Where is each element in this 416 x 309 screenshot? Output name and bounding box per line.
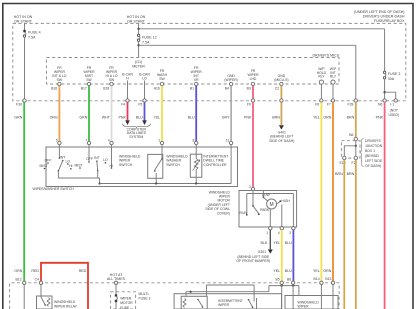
svg-text:PNK: PNK — [119, 116, 127, 120]
svg-text:SW: SW — [159, 77, 165, 81]
wire fuse 4 to pin F30 — [24, 37, 26, 99]
wire ORN F7 to pin B13 — [323, 102, 333, 281]
wire YEL F6 to pin B14 — [313, 102, 321, 281]
svg-text:C4: C4 — [35, 277, 39, 281]
svg-text:YEL: YEL — [273, 241, 280, 245]
arrow B-CAN LO to data lines — [142, 120, 147, 125]
svg-text:YEL: YEL — [313, 269, 320, 273]
node COMPUTER DATA LINES SYSTEM — [123, 124, 151, 140]
svg-text:RLY: RLY — [318, 75, 325, 79]
wire YEL A16 to washer switch — [154, 86, 162, 141]
wire RED C4 loop to bottom — [31, 263, 88, 309]
label INTERMITTENT WIPER RELAY — [218, 299, 243, 307]
wire PNK B3 to pin F9 — [252, 86, 254, 99]
pin B3 — [247, 82, 255, 90]
pin I-1 (NOT USED) — [389, 99, 400, 117]
wire gray W/P INT RLY to pin F7 — [332, 84, 334, 99]
svg-text:BLU: BLU — [188, 116, 195, 120]
svg-text:OR START: OR START — [14, 19, 33, 23]
pin B16 — [51, 82, 61, 90]
windshield wiper relay — [37, 296, 78, 309]
svg-text:BRN: BRN — [335, 172, 343, 176]
wire PNK from N6 to bottom — [376, 102, 385, 309]
pin 1 (motor BLK) — [266, 227, 272, 235]
svg-text:OR START: OR START — [127, 19, 146, 23]
node HOT IN ON OR START (middle) — [127, 15, 146, 23]
wire BRN from F28 to junction box B6 — [347, 102, 356, 137]
intermittent wiper relay coil box — [181, 296, 207, 309]
svg-text:FUSE 3: FUSE 3 — [139, 296, 151, 300]
svg-text:BLU: BLU — [285, 241, 292, 245]
svg-text:JUNCTION: JUNCTION — [365, 144, 383, 148]
windshield wiper box (bottom right) — [285, 296, 338, 309]
svg-text:G301: G301 — [258, 250, 266, 254]
wire WHT B18 to wiper switch — [102, 86, 112, 141]
pin F7 — [327, 99, 335, 107]
svg-text:FUSE 12: FUSE 12 — [142, 35, 157, 39]
svg-text:SWITCH: SWITCH — [166, 163, 180, 167]
wire intermittent relay coil link — [186, 291, 269, 297]
wire from branch to pin F28 — [355, 45, 357, 99]
svg-text:7: 7 — [85, 138, 87, 142]
pin 8 (dwell controller) — [193, 138, 198, 147]
svg-text:SYSTEM: SYSTEM — [129, 135, 143, 139]
svg-text:B16: B16 — [51, 86, 57, 90]
svg-text:B3: B3 — [247, 86, 251, 90]
pin B14 — [314, 277, 324, 309]
svg-text:BOX 1: BOX 1 — [365, 149, 375, 153]
label WINDSHIELD WIPER MOTOR — [205, 190, 230, 215]
node HOT IN ON OR START (left) — [14, 15, 33, 23]
svg-text:SW: SW — [86, 78, 92, 82]
svg-text:FUSE 4: FUSE 4 — [28, 31, 41, 35]
node GND (MICU-S) — [274, 74, 288, 82]
junction above fuse 12 — [137, 28, 139, 30]
svg-text:DRIVER'S MICU: DRIVER'S MICU — [312, 53, 339, 57]
label WINDSHIELD WASHER SWITCH — [166, 154, 188, 167]
svg-text:11: 11 — [226, 138, 230, 142]
svg-text:BRN: BRN — [272, 116, 280, 120]
svg-text:HOT AT: HOT AT — [110, 273, 123, 277]
svg-text:(BEHIND: (BEHIND — [365, 154, 379, 158]
svg-text:LEFT SIDE: LEFT SIDE — [365, 159, 383, 163]
DRIVER'S MICU box (dashed) — [47, 53, 340, 84]
wiper motor M — [262, 191, 293, 228]
pin F10 — [280, 99, 283, 102]
wire fuse 3 to pin N6 — [384, 79, 386, 99]
svg-text:WIPER/WASHER SWITCH: WIPER/WASHER SWITCH — [33, 187, 75, 191]
svg-text:FUSE 3: FUSE 3 — [388, 72, 401, 76]
svg-text:DRIVER'S: DRIVER'S — [365, 139, 381, 143]
pin 4 (wiper switch) — [108, 138, 113, 147]
svg-text:ORN: ORN — [323, 269, 331, 273]
pin B13 — [325, 277, 334, 309]
svg-text:ORG: ORG — [50, 116, 58, 120]
pin 7 (wiper switch) — [85, 138, 90, 147]
svg-text:YEL: YEL — [154, 116, 161, 120]
svg-text:30A: 30A — [388, 77, 395, 81]
svg-text:B13: B13 — [325, 277, 331, 281]
pin 1 (washer switch) — [158, 138, 163, 147]
svg-text:INT: INT — [94, 156, 99, 160]
svg-text:ALL TIMES: ALL TIMES — [107, 277, 126, 281]
intermittent relay contact — [248, 298, 257, 309]
svg-text:BLK: BLK — [261, 241, 268, 245]
svg-text:8: 8 — [193, 138, 195, 142]
windshield wiper motor box — [239, 191, 297, 228]
pin A16 — [154, 82, 164, 90]
svg-text:(WIPER): (WIPER) — [224, 78, 237, 82]
svg-text:PNK: PNK — [376, 116, 384, 120]
wire GRN from F30 to B12 — [14, 102, 24, 281]
svg-text:BLU: BLU — [136, 116, 143, 120]
svg-text:WIPER: WIPER — [218, 303, 230, 307]
ground bus wire — [100, 183, 232, 185]
pin E10 — [339, 156, 346, 165]
svg-text:(MICU-S): (MICU-S) — [274, 78, 288, 82]
windshield washer switch box — [148, 147, 163, 185]
svg-text:INT: INT — [60, 156, 65, 160]
pin F28 — [348, 99, 358, 107]
pin C2 — [275, 82, 283, 90]
wire GRN B17 to wiper switch — [79, 86, 89, 141]
wire BRN E10 to bottom — [335, 160, 344, 309]
svg-text:BRN: BRN — [347, 172, 355, 176]
svg-text:SW: SW — [109, 78, 115, 82]
svg-text:ORN: ORN — [323, 116, 331, 120]
svg-text:PARK: PARK — [260, 208, 270, 212]
label DRIVER'S JUNCTION BOX 1 — [360, 139, 383, 168]
wire to fuse 3 (vertical) — [384, 29, 386, 72]
svg-text:LO: LO — [66, 159, 71, 163]
svg-text:GRN: GRN — [14, 269, 22, 273]
wire BLU B-CAN LO — [136, 81, 145, 121]
wire GRY B4 to switch assembly — [222, 86, 231, 141]
node FR WIPER INT &amp; LO SW — [52, 66, 66, 82]
svg-text:B6: B6 — [287, 277, 291, 281]
svg-text:METER: METER — [132, 64, 145, 68]
wire C4 to wiper relay — [40, 285, 42, 298]
svg-text:5: 5 — [56, 138, 58, 142]
wire branch to F28 (horizontal) — [139, 44, 356, 46]
svg-text:F5: F5 — [138, 103, 142, 107]
wire from HOT IN ON to fuse 12 — [138, 23, 140, 34]
svg-text:4: 4 — [278, 231, 280, 235]
svg-text:F9: F9 — [247, 103, 251, 107]
wiper switch pole 1 — [39, 147, 72, 178]
svg-text:BRN: BRN — [347, 116, 355, 120]
junction below fuse 12 — [137, 44, 139, 46]
wire fuse 12 to METER input — [138, 41, 140, 57]
svg-text:1: 1 — [158, 138, 160, 142]
under-hood fuse/relay box (dashed, bottom) — [10, 283, 340, 309]
svg-text:B14: B14 — [314, 277, 320, 281]
pin C4 — [35, 277, 43, 284]
pin B6 (junction box) — [349, 133, 357, 141]
node FR WIPER LHD — [247, 69, 259, 81]
wire RED B-CAN H — [119, 81, 128, 121]
svg-text:F28: F28 — [348, 103, 354, 107]
node (G1) METER — [132, 60, 145, 68]
svg-text:B12: B12 — [16, 277, 22, 281]
wire BLU B1 to dwell controller — [188, 86, 197, 141]
pin B12 — [16, 277, 26, 284]
wire inside junction box — [344, 141, 357, 157]
svg-text:BLU: BLU — [285, 269, 292, 273]
svg-text:LO: LO — [103, 158, 108, 162]
wire YEL motor to pin B5 — [273, 230, 281, 281]
wire from HOT IN ON to fuse 4 — [24, 23, 26, 30]
svg-text:VR: VR — [194, 78, 199, 82]
svg-text:F4: F4 — [121, 103, 125, 107]
svg-text:B4: B4 — [225, 86, 229, 90]
svg-text:LHD: LHD — [250, 77, 257, 81]
svg-text:B5: B5 — [276, 277, 280, 281]
pin 4 (motor YEL) — [278, 227, 284, 235]
pin 2 (motor BLU) — [289, 227, 295, 235]
wiper motor fuse box (dashed) — [111, 292, 136, 309]
svg-text:OF FRONT BUMPER): OF FRONT BUMPER) — [236, 259, 270, 263]
svg-text:M: M — [270, 202, 274, 208]
pin B1 — [190, 82, 198, 90]
svg-text:OF DASH): OF DASH) — [365, 164, 381, 168]
svg-text:WIPER: WIPER — [120, 296, 132, 300]
relay W/P INT RLY — [330, 67, 337, 84]
wire intermittent relay contact link — [207, 285, 255, 302]
svg-text:USED): USED) — [389, 113, 400, 117]
wire GRY inside switch assembly — [230, 147, 232, 184]
pin 11 (switch ground) — [226, 138, 233, 147]
svg-text:RED: RED — [31, 269, 39, 273]
pin F5 (B-CAN LO) — [138, 99, 146, 107]
svg-text:WIPER: WIPER — [298, 305, 310, 309]
pin hot feed — [114, 281, 117, 294]
svg-text:2: 2 — [289, 231, 291, 235]
svg-text:F30: F30 — [16, 103, 22, 107]
svg-text:GRY: GRY — [222, 116, 230, 120]
wire B12 into box — [23, 285, 25, 309]
intermittent dwell time controller box — [190, 147, 202, 185]
wire BRN C2 to ground G401 — [272, 86, 281, 125]
under-dash fuse/relay box (dashed outline) — [13, 23, 406, 100]
wire branch to I-1 — [385, 92, 396, 99]
fuse 3 (30A) — [383, 71, 400, 81]
pin N6 — [378, 99, 386, 107]
wiper switch pole 2 — [74, 147, 113, 178]
node HOT AT ALL TIMES — [107, 273, 126, 281]
svg-text:3: 3 — [249, 185, 251, 189]
node GND (WIPER) — [224, 74, 237, 82]
node B-CAN H — [122, 73, 133, 81]
svg-text:RED: RED — [79, 269, 87, 273]
svg-text:LOW: LOW — [262, 193, 271, 197]
wire branch to fuse 3 (horizontal) — [139, 28, 385, 30]
node FR WIPER HI &amp; LO SW — [105, 66, 117, 82]
svg-text:(UNDER LEFT END OF DASH): (UNDER LEFT END OF DASH) — [354, 10, 404, 14]
fuse 4 (7.5A) — [23, 30, 40, 40]
svg-text:F6: F6 — [315, 103, 319, 107]
svg-text:LO: LO — [142, 77, 147, 81]
svg-text:GRN: GRN — [79, 116, 87, 120]
wire gray W/P HOLD RLY to pin F6 — [320, 84, 322, 99]
node B-CAN LO — [139, 73, 150, 81]
label MULTI-FUSE 3 — [139, 292, 151, 300]
fuse WIPER MOTOR FUSE — [115, 294, 134, 309]
svg-text:OFF: OFF — [86, 157, 93, 161]
svg-text:7.5A: 7.5A — [142, 40, 150, 44]
svg-text:B18: B18 — [103, 86, 109, 90]
label INTERMITTENT DWELL TIME CONTROLLER — [203, 154, 228, 167]
svg-text:WHT: WHT — [102, 116, 111, 120]
svg-text:DRIVER'S UNDER-DASH: DRIVER'S UNDER-DASH — [363, 15, 405, 19]
svg-text:SWITCH: SWITCH — [119, 163, 133, 167]
node FR WIPER INT VR — [191, 66, 203, 82]
svg-text:SIDE OF DASH): SIDE OF DASH) — [269, 139, 294, 143]
svg-text:RUN: RUN — [240, 211, 248, 215]
svg-text:RLY: RLY — [330, 75, 337, 79]
svg-text:CONTROLLER: CONTROLLER — [203, 163, 227, 167]
pin 5 (wiper switch) — [56, 138, 61, 147]
pin F9 — [247, 99, 255, 107]
pin 3 (wiper motor) — [249, 185, 255, 191]
wire BLU motor to pin B6 — [285, 230, 294, 281]
wiper motor park switch — [240, 191, 294, 216]
intermittent wiper relay assembly box — [174, 294, 281, 309]
svg-text:COVER): COVER) — [217, 211, 230, 215]
wire ORG B16 to wiper switch — [50, 86, 60, 141]
wire BLK motor to ground G301 — [261, 230, 271, 249]
pin B18 — [103, 82, 113, 90]
svg-text:MOTOR: MOTOR — [120, 301, 133, 305]
svg-text:B1: B1 — [190, 86, 194, 90]
svg-text:1: 1 — [266, 231, 268, 235]
pin B17 — [81, 82, 91, 90]
pin B6 (motor BLU) — [287, 277, 295, 309]
pin F6 — [315, 99, 323, 107]
svg-text:MIST: MIST — [39, 164, 47, 168]
svg-text:I-1: I-1 — [390, 103, 394, 107]
svg-text:HI: HI — [69, 164, 72, 168]
wire BRN F2 to bottom — [347, 160, 356, 309]
label DRIVER'S UNDER-DASH FUSE/RELAY BOX — [354, 10, 405, 23]
relay W/P HOLD RLY — [317, 67, 327, 84]
wire PNK F9 to wiper motor pin 3 — [244, 102, 253, 187]
ground G401 — [269, 125, 294, 143]
svg-text:OFF: OFF — [45, 158, 52, 162]
junction to I-1 branch — [383, 91, 385, 93]
wiper/washer switch assembly box — [33, 147, 238, 191]
node FR WIPER MIST SW — [83, 66, 95, 82]
svg-text:MIST: MIST — [74, 163, 82, 167]
driver's junction box 1 (dashed) — [341, 141, 360, 158]
pin F2 — [352, 156, 358, 165]
wire links above relay box — [269, 285, 299, 296]
svg-text:SW: SW — [57, 78, 63, 82]
svg-text:FUSE/RELAY BOX: FUSE/RELAY BOX — [374, 19, 405, 23]
pin B4 — [225, 82, 233, 90]
pin F4 (B-CAN H) — [121, 99, 129, 107]
pin F30 — [16, 99, 26, 107]
fuse 12 (7.5A) — [137, 34, 156, 44]
node FR WASH SW — [157, 69, 168, 81]
svg-text:F7: F7 — [327, 103, 331, 107]
svg-text:B6: B6 — [349, 133, 353, 137]
svg-text:GRN: GRN — [14, 116, 22, 120]
svg-text:HIGH: HIGH — [281, 199, 290, 203]
svg-text:C2: C2 — [275, 86, 279, 90]
svg-text:7.5A: 7.5A — [28, 36, 36, 40]
svg-text:PNK: PNK — [244, 116, 252, 120]
label WINDSHIELD WIPER SWITCH — [119, 154, 141, 167]
svg-text:N6: N6 — [378, 103, 382, 107]
svg-text:4: 4 — [108, 138, 110, 142]
pin B5 — [276, 277, 284, 309]
svg-text:WIPER RELAY: WIPER RELAY — [54, 304, 78, 308]
arrow B-CAN H to data lines — [125, 120, 130, 125]
svg-text:A16: A16 — [154, 86, 160, 90]
svg-text:YEL: YEL — [273, 269, 280, 273]
svg-text:YEL: YEL — [313, 116, 320, 120]
svg-text:B17: B17 — [81, 86, 87, 90]
bus wire pole pivots — [58, 178, 100, 185]
ground G301 — [236, 249, 272, 263]
